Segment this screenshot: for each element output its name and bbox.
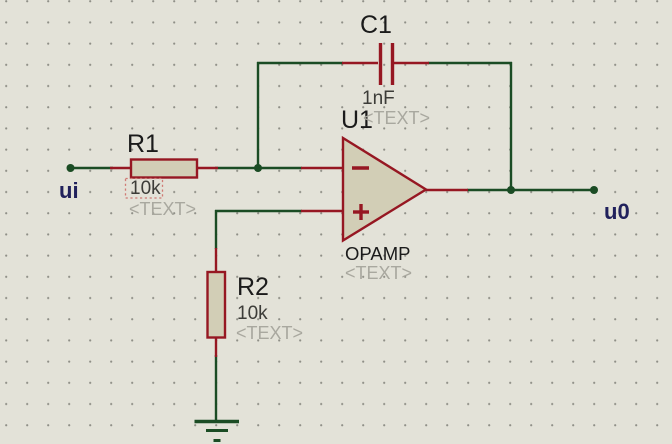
- junction node A (feedback tap): [254, 164, 262, 172]
- op-amp U1: [301, 138, 468, 241]
- terminal dot ui: [67, 164, 75, 172]
- wire: feedback top horizontal to C1 left lead: [257, 62, 343, 64]
- terminal dot u0: [590, 186, 598, 194]
- wire: feedback vertical up from node A: [257, 62, 259, 169]
- svg-text:<TEXT>: <TEXT>: [236, 323, 303, 343]
- svg-text:OPAMP: OPAMP: [345, 243, 410, 264]
- wire: R2 bottom to ground: [215, 355, 217, 421]
- wire: op-amp output to u0 terminal: [467, 189, 594, 191]
- svg-text:<TEXT>: <TEXT>: [129, 199, 196, 219]
- ground: [195, 422, 240, 441]
- wire: C1 right lead to top-right corner: [428, 62, 512, 64]
- selection box around R1 value: [126, 179, 163, 199]
- resistor R1: [110, 160, 218, 178]
- capacitor C1: [342, 43, 429, 85]
- svg-text:R2: R2: [237, 273, 269, 301]
- svg-text:R1: R1: [127, 130, 159, 158]
- wire: ui terminal to R1 left pin: [70, 167, 113, 169]
- wire: R1 right pin to op-amp minus input (node A segment): [215, 167, 302, 169]
- svg-text:10k: 10k: [237, 303, 268, 324]
- svg-text:ui: ui: [59, 178, 79, 203]
- svg-text:<TEXT>: <TEXT>: [345, 263, 412, 283]
- resistor R2: [208, 248, 226, 357]
- svg-text:C1: C1: [360, 11, 392, 39]
- wire: plus input horizontal: [215, 210, 302, 212]
- junction output node: [507, 186, 515, 194]
- svg-text:u0: u0: [604, 199, 630, 224]
- wire: feedback vertical down to output node: [510, 62, 512, 190]
- svg-text:<TEXT>: <TEXT>: [363, 108, 430, 128]
- svg-text:10k: 10k: [130, 178, 161, 199]
- wire: plus input vertical down to R2: [215, 210, 217, 249]
